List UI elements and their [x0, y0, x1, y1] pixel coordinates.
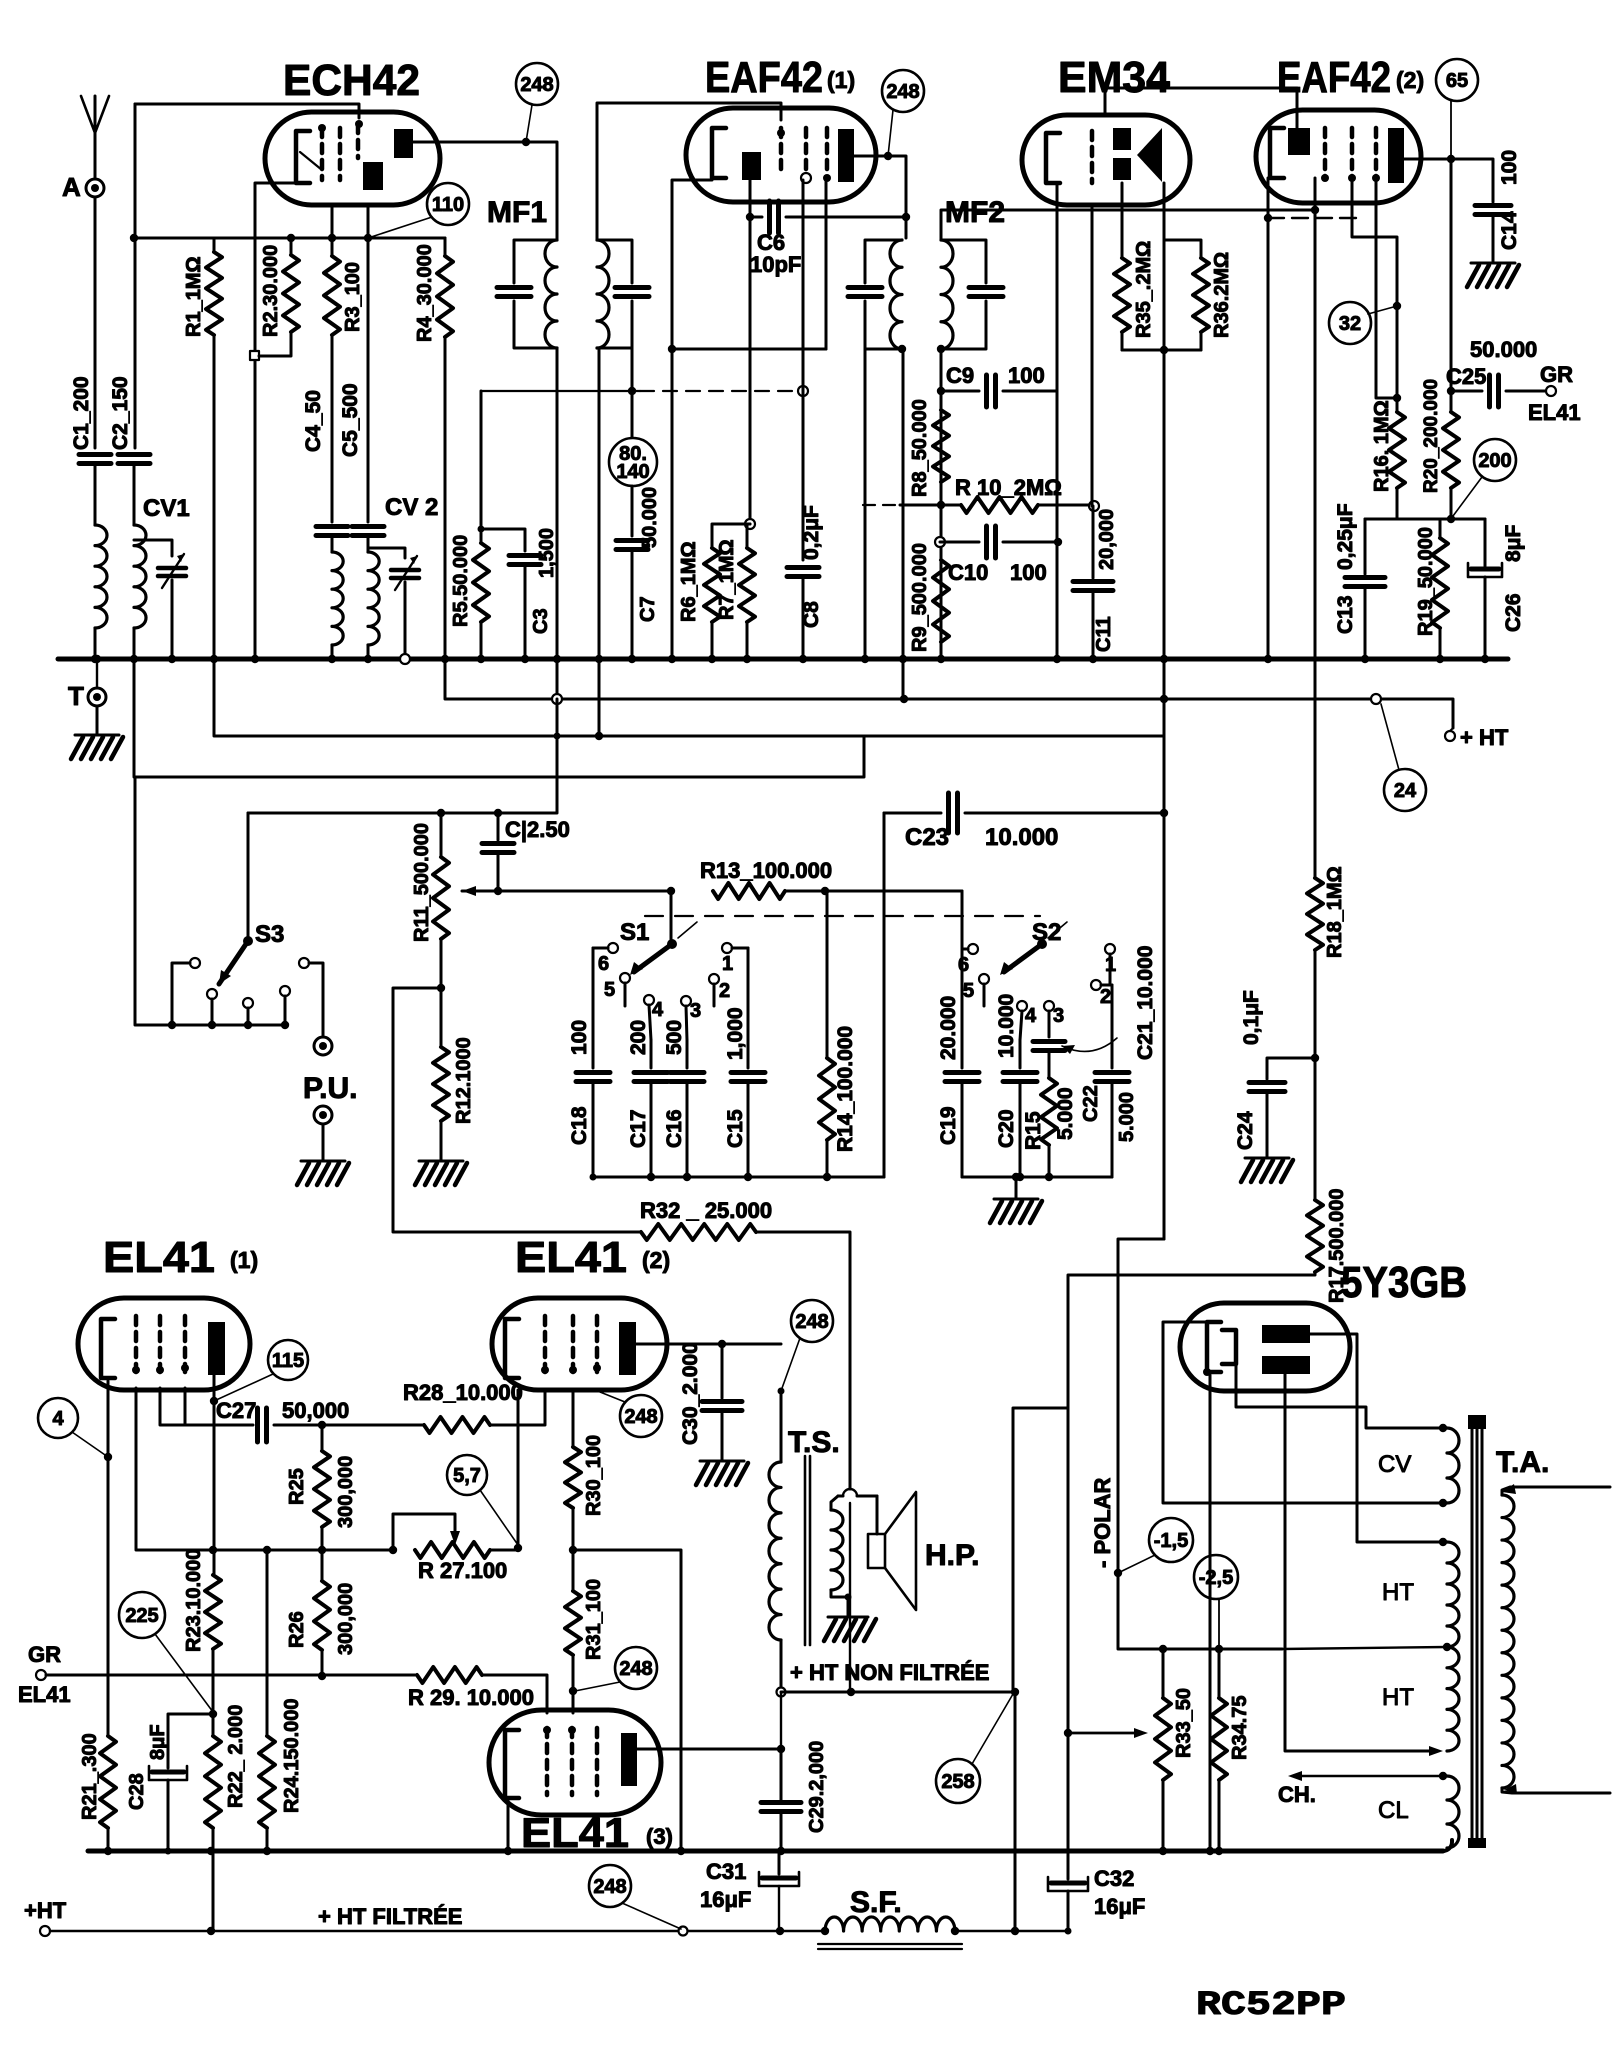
- wire: [331, 335, 334, 522]
- switch S3 arm: [219, 936, 253, 984]
- svg-text:200: 200: [1478, 450, 1511, 472]
- svg-text:MF1: MF1: [487, 196, 547, 229]
- svg-text:50.000: 50.000: [1470, 337, 1537, 362]
- svg-text:C25: C25: [1446, 364, 1486, 389]
- terminal PU 2: [314, 1106, 332, 1124]
- svg-text:8μF: 8μF: [147, 1724, 169, 1760]
- label EAF42 1: [705, 53, 855, 102]
- tube ECH42: [265, 112, 440, 205]
- svg-text:100: 100: [568, 1020, 591, 1055]
- wire EM34 cathode to bus: [1053, 183, 1061, 663]
- wire AVC line: [481, 386, 808, 396]
- callout 65: [1436, 59, 1478, 159]
- resistor R18 1M: [1307, 878, 1323, 950]
- svg-text:2: 2: [719, 980, 730, 1002]
- wire S2 bottom: [962, 1173, 1112, 1181]
- callout 225: [119, 1592, 213, 1712]
- wire MF2 to EAF42 2: [941, 210, 1315, 240]
- wire C29 to bus: [777, 1811, 785, 1855]
- wire to R4: [368, 238, 445, 256]
- svg-text:248: 248: [624, 1406, 657, 1428]
- wire node 519: [1365, 518, 1485, 521]
- contact S1 3: [681, 996, 701, 1040]
- capacitor C15 1000: [724, 948, 765, 1181]
- resistor R8 50000: [909, 399, 949, 497]
- svg-text:R28_10.000: R28_10.000: [403, 1380, 523, 1405]
- contact S3 b: [207, 989, 217, 1029]
- wire to R20: [1450, 159, 1453, 412]
- svg-text:C30_2.000: C30_2.000: [679, 1342, 702, 1445]
- svg-text:R18_1MΩ: R18_1MΩ: [1324, 866, 1346, 958]
- svg-text:ECH42: ECH42: [283, 56, 420, 105]
- ground R12: [415, 1161, 467, 1185]
- label S3: [255, 921, 284, 948]
- label TA: [1496, 1446, 1549, 1479]
- capacitor C12 50: [482, 817, 570, 853]
- svg-text:C3: C3: [530, 608, 552, 634]
- svg-text:2: 2: [1100, 986, 1111, 1008]
- resistor R35 2M: [1114, 241, 1155, 338]
- svg-text:R23.10.000: R23.10.000: [183, 1549, 205, 1652]
- wire: [780, 1692, 782, 1749]
- wire EL41 1 anode: [209, 1375, 218, 1575]
- wire hop to HTNF: [843, 1489, 857, 1692]
- svg-text:C26: C26: [1502, 593, 1525, 632]
- label POLAR: [1090, 1477, 1115, 1568]
- svg-text:GR: GR: [1540, 362, 1573, 387]
- resistor R5 50000: [450, 535, 489, 627]
- wire R31 to EL41 3: [569, 1655, 577, 1713]
- label HP: [925, 1539, 979, 1572]
- wire EAF42 2 anode: [1404, 155, 1493, 202]
- wire CV2 to bus: [400, 582, 410, 664]
- wire EL41 2 grid2: [572, 1390, 575, 1447]
- svg-text:10pF: 10pF: [750, 252, 801, 277]
- wire bottom bus: [88, 1840, 1452, 1851]
- wire CH tap: [1288, 1771, 1447, 1781]
- wire to R1: [134, 238, 214, 252]
- grid 2 EL41 3: [568, 1726, 576, 1795]
- label PU: [303, 1072, 357, 1105]
- wire to R19: [1439, 519, 1442, 538]
- capacitor C25 50000: [1451, 375, 1556, 407]
- label CV1: [143, 495, 190, 522]
- callout -2.5: [1194, 1555, 1238, 1653]
- wire R29 to EL41 3: [482, 1675, 547, 1713]
- wire heater dash: [1264, 214, 1356, 222]
- resistor R27 100: [415, 1542, 507, 1583]
- capacitor C10 100: [940, 526, 1062, 585]
- label R28: [403, 1380, 523, 1405]
- resistor R19 50000: [1415, 527, 1448, 636]
- wire AVC 2: [863, 504, 961, 506]
- wire plate1 to HT top: [1310, 1334, 1447, 1546]
- wire S3 bottom: [135, 777, 286, 1025]
- label EL41 1: [103, 1233, 258, 1282]
- contact S2 6: [958, 944, 978, 976]
- wire S3 top line: [134, 661, 864, 777]
- svg-text:16μF: 16μF: [1094, 1894, 1145, 1919]
- wire grid3: [184, 1388, 187, 1425]
- capacitor C3 1500: [509, 528, 558, 634]
- svg-text:C11: C11: [1093, 616, 1115, 652]
- svg-text:C16: C16: [663, 1109, 686, 1148]
- wire grid3 pin down: [825, 180, 828, 349]
- resistor R9 500000: [909, 543, 949, 652]
- resistor R36 2M: [1193, 252, 1233, 338]
- svg-text:H.P.: H.P.: [925, 1539, 979, 1572]
- wire R22 to HT line: [207, 1828, 215, 1935]
- callout 248 c: [600, 1392, 662, 1437]
- junction: [745, 519, 755, 529]
- junction MF2 bottoms: [898, 345, 945, 353]
- wire EM34 plate to EAF42 2: [1105, 88, 1297, 128]
- svg-text:MF2: MF2: [945, 196, 1005, 229]
- wire to C28: [168, 1714, 213, 1768]
- grid 3 EAF42 2: [1372, 128, 1380, 182]
- wire R16 bottom: [1396, 488, 1399, 519]
- wire C11 to bus: [1089, 592, 1097, 663]
- wire to CV2: [368, 548, 405, 558]
- frame MF1 left: [514, 240, 557, 348]
- wire R34 to bus: [1215, 1780, 1223, 1855]
- wire C8 to bus: [799, 578, 807, 663]
- wire MF1 to EAF42 grid: [597, 103, 781, 240]
- wire volume line: [498, 887, 675, 895]
- contact S3 d: [280, 986, 290, 1029]
- cathode EL41 1: [101, 1319, 115, 1378]
- wire EM34 target column: [1160, 183, 1168, 1239]
- resistor R31 100: [565, 1579, 605, 1660]
- junction C25: [1447, 387, 1455, 395]
- label HT filtree: [318, 1904, 462, 1929]
- svg-text:HT: HT: [1382, 1579, 1414, 1606]
- svg-text:300,000: 300,000: [335, 1456, 357, 1528]
- anode EL41 2: [619, 1322, 636, 1375]
- contact S2 5: [963, 974, 989, 1006]
- capacitor C20 10000: [995, 994, 1037, 1181]
- wire to C12: [497, 813, 500, 840]
- coil antenna secondary: [134, 525, 146, 628]
- capacitor MF1 right: [615, 288, 649, 297]
- callout 248 e: [781, 1300, 833, 1391]
- resistor R34 75: [1211, 1696, 1251, 1781]
- wire ECH42 cathode to bus: [251, 183, 296, 663]
- winding CV: [1447, 1428, 1459, 1503]
- contact S2 4: [1017, 1001, 1037, 1040]
- svg-text:C15: C15: [724, 1109, 747, 1148]
- capacitor C8 0.2uF: [787, 505, 823, 628]
- svg-text:T: T: [68, 681, 84, 711]
- resistor R17 500000: [1307, 1188, 1348, 1303]
- wire filament to CV top: [1236, 1364, 1447, 1432]
- switch S1 arm: [630, 922, 697, 975]
- anode EAF42 2: [1388, 128, 1404, 183]
- wire MF2 frame to bus: [861, 349, 869, 663]
- svg-text:S.F.: S.F.: [850, 1886, 902, 1919]
- resistor R21 300: [79, 1733, 116, 1828]
- label CL: [1378, 1797, 1409, 1824]
- wire to R36: [1164, 240, 1201, 258]
- svg-text:R11_500.000: R11_500.000: [411, 823, 433, 942]
- svg-text:50,000: 50,000: [282, 1398, 349, 1423]
- svg-text:10.000: 10.000: [985, 824, 1058, 851]
- wire to R3: [331, 238, 334, 256]
- frame MF2 right: [941, 240, 986, 349]
- filament 5Y3GB b: [1203, 1330, 1236, 1376]
- coil MF2 primary: [890, 240, 902, 349]
- contact S3 a: [168, 958, 200, 1029]
- tube EAF42 2: [1256, 110, 1421, 203]
- svg-text:R6_1MΩ: R6_1MΩ: [678, 541, 700, 622]
- wire R15 bottom: [1045, 1145, 1053, 1181]
- svg-text:C24: C24: [1234, 1111, 1257, 1150]
- resistor R16 1M: [1371, 400, 1405, 492]
- grid 1 EL41 3: [543, 1726, 551, 1795]
- svg-text:R31_100: R31_100: [583, 1579, 605, 1660]
- coil TS primary: [769, 1462, 781, 1640]
- wire C26 to bus: [1481, 577, 1489, 663]
- capacitor C21 10000: [1033, 1042, 1065, 1079]
- svg-text:C19: C19: [937, 1106, 960, 1145]
- callout 4: [38, 1398, 108, 1457]
- svg-text:CV1: CV1: [143, 495, 190, 522]
- wire EAF42 1 cathode: [668, 180, 712, 663]
- core TA caps: [1468, 1415, 1486, 1848]
- svg-text:R7_1MΩ: R7_1MΩ: [716, 539, 738, 620]
- svg-text:R25: R25: [286, 1468, 308, 1505]
- svg-text:(1): (1): [230, 1247, 258, 1273]
- svg-text:GR: GR: [28, 1642, 61, 1667]
- junction C10: [935, 537, 945, 547]
- wire to bus: [328, 645, 336, 663]
- svg-text:C2_150: C2_150: [109, 376, 132, 450]
- svg-text:0,1μF: 0,1μF: [1240, 990, 1263, 1045]
- wire to R2: [290, 238, 293, 255]
- svg-text:C18: C18: [568, 1106, 591, 1145]
- wire TA top lead: [1502, 1484, 1610, 1495]
- grid 2 EL41 1: [156, 1316, 164, 1374]
- wire R10 to C11: [1038, 501, 1099, 511]
- wire R23 R22: [209, 1649, 217, 1736]
- grid EM34: [1090, 131, 1095, 183]
- svg-text:EL41: EL41: [515, 1233, 627, 1282]
- plate 2 5Y3GB: [1262, 1356, 1310, 1374]
- wire to R24: [266, 1550, 269, 1736]
- svg-text:3: 3: [1053, 1005, 1064, 1027]
- callout 80 140: [609, 438, 657, 486]
- grid 3 EL41 3: [595, 1728, 600, 1795]
- capacitor C14 100: [1475, 150, 1521, 250]
- svg-text:32: 32: [1339, 313, 1361, 335]
- svg-text:R4_30.000: R4_30.000: [414, 244, 436, 342]
- svg-text:100: 100: [1498, 150, 1521, 185]
- terminal +HT filtree: [24, 1898, 67, 1936]
- wire R28 to EL41 2: [490, 1390, 545, 1425]
- wire T ground: [96, 706, 99, 735]
- svg-text:R 10_2MΩ: R 10_2MΩ: [955, 475, 1062, 500]
- wire anode to MF1: [413, 138, 557, 240]
- svg-text:16μF: 16μF: [700, 1887, 751, 1912]
- svg-text:+ HT FILTRÉE: + HT FILTRÉE: [318, 1904, 462, 1929]
- svg-text:R15: R15: [1022, 1111, 1045, 1150]
- svg-text:5: 5: [604, 979, 615, 1001]
- wire to TS: [780, 1391, 783, 1462]
- grid 1 EL41 1: [132, 1316, 140, 1374]
- wire R18 to R17: [1314, 1058, 1317, 1200]
- wire HT mid column: [1118, 1239, 1282, 1649]
- junction 24: [1371, 694, 1399, 770]
- wire EL41 3 anode: [637, 1745, 785, 1753]
- svg-text:100: 100: [1008, 363, 1045, 388]
- svg-text:200: 200: [627, 1020, 650, 1055]
- grid 2 ECH42: [338, 128, 343, 180]
- grid 2 EAF42 1: [801, 128, 811, 183]
- svg-text:S1: S1: [620, 919, 649, 946]
- svg-text:S2: S2: [1032, 919, 1061, 946]
- capacitor MF2 left: [848, 288, 882, 297]
- capacitor C16 500: [663, 1020, 704, 1181]
- wire to C32: [1067, 1733, 1070, 1879]
- wire C3 to bus: [521, 565, 529, 663]
- label S1: [620, 919, 649, 946]
- callout 248 b: [882, 70, 924, 156]
- svg-text:EL41: EL41: [103, 1233, 215, 1282]
- resistor R2 30000: [260, 245, 299, 337]
- wire pin 4: [1376, 180, 1397, 398]
- resistor R30 100: [565, 1435, 605, 1516]
- wiper R33: [1068, 1728, 1148, 1738]
- grid 3 EL41 1: [181, 1316, 189, 1372]
- diode plate EAF42 1: [742, 152, 761, 180]
- label CH: [1278, 1782, 1316, 1807]
- svg-text:R24.150.000: R24.150.000: [281, 1698, 303, 1813]
- svg-text:C27: C27: [216, 1398, 256, 1423]
- wire to R34: [1218, 1649, 1221, 1698]
- label EL41 2: [515, 1233, 670, 1282]
- svg-text:C1_200: C1_200: [70, 376, 93, 450]
- wire to R25: [321, 1425, 324, 1451]
- svg-text:EL41: EL41: [18, 1682, 71, 1707]
- wire R14 top: [826, 891, 829, 1058]
- ground speaker: [824, 1617, 876, 1641]
- capacitor C7 50000: [616, 487, 661, 622]
- potentiometer R33 50: [1155, 1688, 1195, 1780]
- wire antenna top line: [135, 104, 359, 118]
- svg-text:248: 248: [520, 74, 553, 96]
- capacitor C2 150: [109, 376, 150, 463]
- contact S1 6: [593, 943, 618, 975]
- wire HT filtree: [50, 1927, 825, 1936]
- wire R14 bottom: [823, 1140, 831, 1181]
- wire CV1 to bus: [168, 580, 176, 663]
- svg-text:R2.30.000: R2.30.000: [260, 245, 282, 337]
- wire C14: [1492, 216, 1495, 262]
- variable capacitor CV1: [158, 554, 186, 588]
- wire grid to C8: [802, 180, 805, 560]
- wire EM34 grid: [1091, 205, 1094, 506]
- capacitor C29 2000: [761, 1741, 828, 1833]
- anode EL41 1: [208, 1322, 225, 1375]
- wire heater rail: [445, 659, 1453, 728]
- label CV2: [385, 494, 438, 521]
- junction square: [250, 351, 259, 360]
- wire S2 ground: [1015, 1177, 1018, 1198]
- resistor R1 1M: [183, 252, 222, 337]
- wire grid line: [214, 234, 445, 242]
- svg-text:5.000: 5.000: [1116, 1092, 1138, 1142]
- wire frame to AVC: [631, 348, 634, 391]
- label MF1: [487, 196, 547, 229]
- svg-text:EM34: EM34: [1058, 53, 1171, 102]
- wire to HT non filtree: [1013, 1408, 1068, 1692]
- wire filament mid to bus: [1206, 1375, 1214, 1855]
- callout 248 f: [589, 1865, 681, 1929]
- callout 200: [1453, 439, 1516, 516]
- svg-text:CH.: CH.: [1278, 1782, 1316, 1807]
- svg-text:1,500: 1,500: [536, 528, 558, 578]
- capacitor C5 500: [339, 383, 384, 535]
- svg-text:C28: C28: [126, 1773, 148, 1810]
- coil antenna primary: [95, 525, 107, 628]
- svg-text:R12.1000: R12.1000: [453, 1037, 475, 1124]
- svg-text:C22: C22: [1080, 1085, 1102, 1122]
- label R32: [640, 1198, 772, 1223]
- svg-text:C10: C10: [948, 560, 988, 585]
- ground T: [71, 735, 123, 759]
- switch S2 arm: [1000, 922, 1067, 975]
- wire R19 to bus: [1436, 628, 1444, 663]
- svg-text:EL41: EL41: [1528, 400, 1581, 425]
- wire to HT filtree: [1011, 1692, 1019, 1935]
- resistor R24 150000: [259, 1698, 303, 1828]
- tube 5Y3GB: [1180, 1303, 1350, 1391]
- ground C14: [1467, 263, 1519, 287]
- wire cathode to MF2 frame: [668, 345, 826, 353]
- resistor R3 100: [324, 256, 364, 335]
- svg-text:- POLAR: - POLAR: [1090, 1477, 1115, 1568]
- svg-text:EAF42: EAF42: [1277, 53, 1391, 102]
- svg-text:R8_50.000: R8_50.000: [909, 399, 931, 497]
- label EL41 3: [521, 1809, 673, 1856]
- wire EL41 2 anode: [636, 1340, 785, 1395]
- wire to EL41 2 cathode: [517, 1390, 520, 1548]
- wire: [1311, 950, 1319, 1062]
- svg-text:(1): (1): [827, 67, 855, 93]
- label R18: [1324, 866, 1346, 958]
- capacitor C6 10pF: [750, 201, 904, 277]
- svg-text:C21_10.000: C21_10.000: [1134, 946, 1157, 1060]
- wire to C30: [721, 1344, 724, 1398]
- label RC52PP: [1196, 1987, 1346, 2025]
- wire SF right: [955, 1930, 1068, 1932]
- svg-text:3: 3: [690, 1000, 701, 1022]
- wire R17 down: [1068, 1272, 1315, 1408]
- contact S1 2: [709, 974, 730, 1006]
- resistor R10 2M: [955, 475, 1062, 513]
- svg-text:248: 248: [886, 81, 919, 103]
- cathode ECH42: [296, 131, 310, 183]
- svg-text:6: 6: [598, 953, 609, 975]
- plate 1 5Y3GB: [1262, 1325, 1310, 1343]
- wire R20 bottom: [1447, 488, 1455, 523]
- svg-text:C4_50: C4_50: [302, 390, 325, 452]
- wire to C26: [1484, 519, 1487, 566]
- contact S2 3: [1044, 1001, 1064, 1037]
- callout 248 a: [516, 63, 558, 142]
- wire HT non filtree: [781, 1688, 1019, 1696]
- anode EAF42 1: [838, 129, 854, 182]
